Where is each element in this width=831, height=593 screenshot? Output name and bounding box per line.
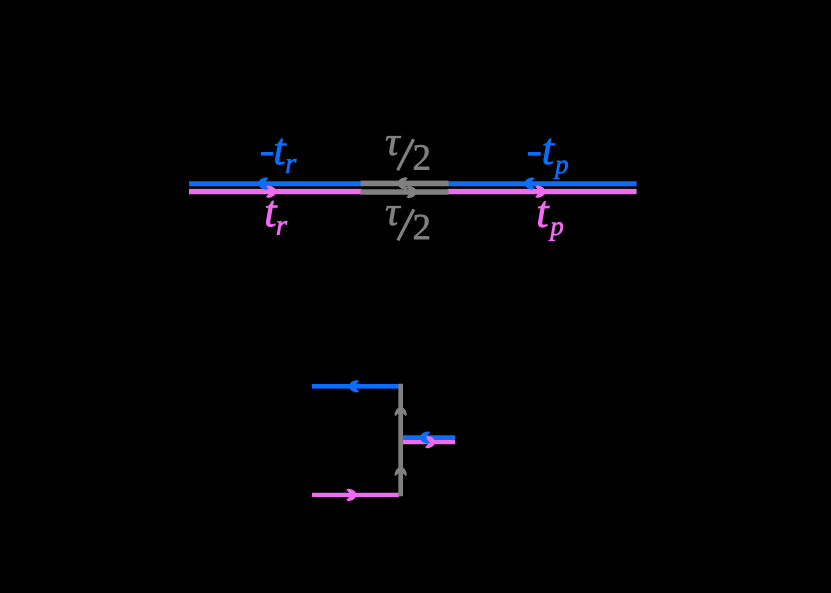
label -t_r (blue): minus sign — [261, 152, 273, 156]
label tau/2 upper (gray): 2 — [414, 145, 429, 170]
label t_r (magenta): subscript r — [277, 221, 287, 235]
wire lower magenta contour line, left part (top diagram) — [189, 189, 362, 194]
wire short magenta line (bottom diagram middle right) — [403, 440, 456, 444]
wire gray tau/2 lower segment — [361, 189, 449, 195]
label tau/2 lower (gray): 2 — [414, 215, 429, 240]
arrow gray up (vertical, lower) — [394, 468, 407, 476]
arrow gray left (upper gray segment) — [399, 177, 408, 190]
label -t_r (blue): t — [275, 139, 286, 165]
label t_r (magenta): t — [266, 201, 277, 227]
arrow magenta right (lower line, left) — [266, 185, 275, 198]
wire upper blue contour line, left part (top diagram) — [189, 181, 362, 186]
wire gray vertical line (bottom diagram) — [398, 384, 403, 497]
wire upper blue contour line, right part (top diagram) — [448, 181, 637, 186]
arrow magenta right (bottom diagram bottom line) — [346, 489, 355, 502]
label t_p (magenta): subscript p — [549, 222, 563, 240]
wire lower magenta contour line, right part (top diagram) — [448, 189, 637, 194]
label tau/2 lower (gray): slash — [398, 209, 414, 240]
arrow gray up (vertical, upper) — [394, 408, 407, 416]
arrow gray right (lower gray segment) — [406, 186, 415, 199]
arrow blue left (upper line, right) — [525, 177, 534, 190]
arrow blue left (short middle line) — [421, 431, 430, 444]
label t_p (magenta): t — [538, 201, 549, 227]
label tau/2 upper (gray): slash — [398, 139, 414, 170]
arrow blue left (bottom diagram top line) — [350, 380, 359, 393]
label -t_p (blue): minus sign — [528, 152, 541, 156]
wire bottom magenta line (bottom diagram) — [312, 493, 399, 497]
arrow magenta right (lower line, right) — [535, 185, 544, 198]
label tau/2 lower (gray): tau — [386, 206, 401, 225]
arrow blue left (upper line, left) — [259, 177, 268, 190]
wire gray tau/2 upper segment — [361, 181, 449, 187]
label -t_r (blue): subscript r — [286, 159, 296, 173]
wire blue top line (bottom diagram) — [312, 384, 399, 389]
arrow magenta right (short middle line) — [425, 436, 434, 449]
wire short blue line (bottom diagram middle right) — [403, 435, 456, 440]
label -t_p (blue): subscript p — [554, 160, 568, 178]
label tau/2 upper (gray): tau — [386, 136, 401, 155]
label -t_p (blue): t — [544, 139, 555, 165]
